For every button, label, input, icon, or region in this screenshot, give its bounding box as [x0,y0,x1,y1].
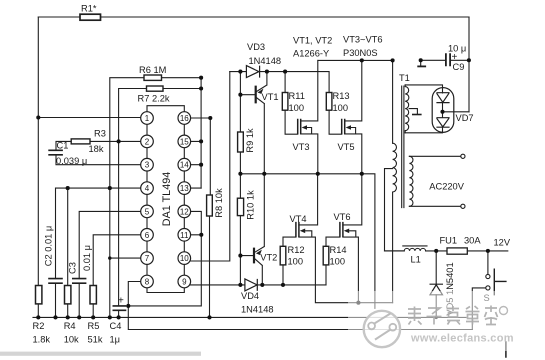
svg-text:R4: R4 [64,321,76,331]
svg-text:C9: C9 [453,62,465,72]
svg-text:10: 10 [180,254,189,263]
svg-text:C3: C3 [68,262,78,274]
svg-text:www.elecfans.com: www.elecfans.com [410,333,514,345]
svg-text:L1: L1 [411,255,421,265]
svg-text:14: 14 [180,161,189,170]
svg-text:T1: T1 [399,73,410,83]
svg-text:R11: R11 [289,91,305,101]
svg-text:VT5: VT5 [338,142,355,152]
svg-text:R6 1M: R6 1M [139,65,166,75]
svg-text:13: 13 [180,184,189,193]
svg-text:4: 4 [145,184,150,193]
svg-text:R14: R14 [330,245,347,255]
svg-text:100: 100 [289,103,305,113]
svg-text:R9 1k: R9 1k [245,128,255,153]
svg-text:VT4: VT4 [290,214,307,224]
svg-text:R10 1k: R10 1k [245,190,255,220]
svg-text:1μ: 1μ [110,335,121,345]
svg-text:1N4148: 1N4148 [249,56,282,66]
svg-text:1: 1 [145,114,150,123]
svg-text:P30N0S: P30N0S [343,48,378,58]
svg-text:VT3~VT6: VT3~VT6 [343,35,383,45]
svg-text:9: 9 [182,278,187,287]
svg-text:100: 100 [330,257,346,267]
svg-text:C2 0.01 μ: C2 0.01 μ [44,226,54,267]
svg-text:+: + [118,296,124,307]
svg-text:1N4148: 1N4148 [241,305,274,315]
svg-text:C4: C4 [110,321,122,331]
svg-text:0.039 μ: 0.039 μ [56,156,87,166]
svg-text:R7 2.2k: R7 2.2k [138,94,170,104]
svg-text:100: 100 [288,257,304,267]
svg-text:A1266-Y: A1266-Y [293,49,329,59]
svg-text:FU1: FU1 [440,236,458,246]
svg-text:2: 2 [145,137,150,146]
svg-text:0.01 μ: 0.01 μ [82,245,92,271]
svg-text:R2: R2 [33,321,45,331]
svg-text:R1*: R1* [81,4,97,14]
svg-text:51k: 51k [88,335,103,345]
svg-text:7: 7 [145,254,150,263]
svg-text:12V: 12V [494,238,511,248]
svg-text:VT1: VT1 [262,92,279,102]
svg-text:R3: R3 [94,129,106,139]
svg-text:C1: C1 [57,141,69,151]
svg-text:6: 6 [145,231,150,240]
svg-text:12: 12 [180,207,189,216]
svg-text:1.8k: 1.8k [33,335,51,345]
svg-text:VT1, VT2: VT1, VT2 [293,36,332,46]
svg-text:VD3: VD3 [247,42,265,52]
svg-text:18k: 18k [89,144,104,154]
svg-text:VT6: VT6 [334,212,351,222]
svg-text:3: 3 [145,161,150,170]
svg-text:R5: R5 [88,321,100,331]
svg-text:8: 8 [145,278,150,287]
svg-text:30A: 30A [464,236,481,246]
svg-text:VT3: VT3 [293,142,310,152]
svg-text:VT2: VT2 [260,253,277,263]
svg-text:VD4: VD4 [241,291,259,301]
svg-text:R13: R13 [333,91,350,101]
svg-text:+: + [452,52,458,63]
svg-text:AC220V: AC220V [429,182,464,192]
svg-text:16: 16 [180,114,189,123]
svg-text:5: 5 [145,207,150,216]
svg-text:100: 100 [333,103,349,113]
svg-text:15: 15 [180,137,189,146]
svg-text:DA1 TL494: DA1 TL494 [161,172,173,226]
svg-text:R12: R12 [288,245,305,255]
svg-text:10k: 10k [64,335,79,345]
svg-text:11: 11 [180,231,189,240]
svg-text:VD7: VD7 [456,113,474,123]
svg-text:R8 10k: R8 10k [214,188,224,218]
